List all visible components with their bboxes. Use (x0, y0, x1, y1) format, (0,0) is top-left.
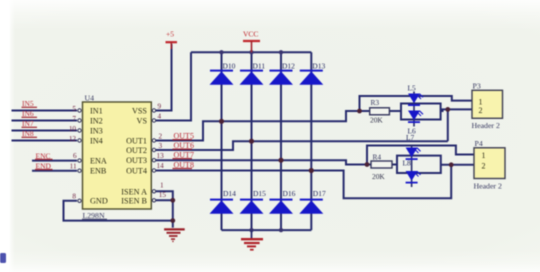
wire channel1 bypass to P3 pin1 (360, 96, 473, 111)
header P4 (474, 139, 506, 191)
svg-text:OUT6: OUT6 (174, 141, 194, 150)
resistor R4 (371, 153, 392, 181)
IC U4 L298N body (82, 94, 151, 221)
svg-text:1: 1 (479, 97, 483, 106)
svg-text:1: 1 (482, 151, 486, 160)
junction VCC rail / D10 column (219, 50, 223, 54)
wire bottom ground rail (222, 229, 312, 231)
IC pin names right (121, 107, 147, 206)
svg-text:IN7: IN7 (22, 119, 34, 128)
junction node D / P4 pin2 (449, 162, 454, 167)
net label IN8 (22, 129, 38, 138)
diode D13 (299, 61, 325, 84)
diode D12 (269, 61, 295, 84)
wire channel1 net B down to OUT6 (447, 109, 449, 141)
wire IN5 to pin5 (12, 110, 78, 112)
left edge cropped net stubs (0, 253, 6, 263)
wire OUT5 net from pin2 (156, 111, 360, 141)
power +5 (166, 29, 178, 49)
wire diode column D12 D16 (280, 52, 282, 230)
svg-text:U4: U4 (85, 94, 95, 103)
wire ISENA pin1 to ground (156, 191, 173, 227)
junction node A / R3 left (357, 109, 362, 114)
svg-text:8: 8 (72, 193, 76, 201)
wire ENC to pin6 (32, 160, 77, 162)
wire END to pin11 (32, 170, 77, 172)
wire GND pin8 loop under IC (64, 201, 173, 221)
svg-text:1: 1 (160, 181, 164, 189)
svg-text:ISEN A: ISEN A (121, 187, 147, 196)
svg-text:15: 15 (159, 191, 167, 199)
LED L8 (403, 158, 421, 183)
svg-text:D14: D14 (223, 189, 236, 198)
wire diode column D11 D15 (251, 52, 253, 230)
junction OUT6 / D11 column (249, 139, 254, 144)
wire IN8 to pin12 (12, 140, 78, 142)
diode D11 (240, 61, 266, 84)
svg-text:D10: D10 (223, 61, 236, 70)
junction OUT7 / D12 column (278, 158, 283, 163)
ground below diode rail (241, 230, 263, 250)
svg-text:R4: R4 (373, 153, 382, 162)
svg-text:GND: GND (90, 197, 108, 206)
svg-text:9: 9 (158, 103, 162, 111)
svg-text:12: 12 (69, 135, 77, 143)
wire LED column channel2 (411, 146, 413, 187)
wire channel2 loop rectangle (397, 156, 441, 173)
net label ENC (35, 151, 53, 160)
svg-text:Header 2: Header 2 (474, 182, 502, 191)
svg-text:20K: 20K (372, 172, 385, 181)
wire IN6 to pin7 (12, 120, 78, 122)
net label OUT8 (173, 160, 194, 169)
header P3 (472, 82, 503, 130)
junction VCC rail / D11 column (249, 50, 253, 54)
svg-text:D15: D15 (253, 189, 266, 198)
svg-text:2: 2 (159, 133, 163, 141)
resistor R3 (370, 98, 390, 125)
wire diode column D13 D17 (310, 52, 312, 230)
junction OUT5 / D10 column (219, 119, 224, 124)
power VCC (243, 29, 260, 52)
wire OUT6 net from pin3 (156, 141, 448, 150)
svg-text:P3: P3 (473, 82, 481, 91)
wire channel1 to P3 pin2 (441, 109, 472, 111)
svg-text:P4: P4 (475, 139, 483, 148)
svg-text:L8: L8 (403, 158, 412, 167)
diode D15 (240, 189, 267, 214)
wire diode column D10 D14 (221, 52, 223, 230)
svg-text:+5: +5 (166, 29, 174, 38)
svg-text:L5: L5 (408, 84, 417, 93)
wire channel2 bypass to P4 pin1 (367, 146, 474, 165)
svg-text:R3: R3 (371, 98, 380, 107)
svg-text:IN4: IN4 (90, 137, 103, 146)
junction OUT8 / D13 column (309, 168, 314, 173)
wire OUT7 net from pin13 (156, 160, 367, 164)
svg-text:2: 2 (479, 106, 483, 115)
LED L7 (406, 133, 421, 160)
svg-text:OUT4: OUT4 (126, 167, 147, 176)
net label OUT6 (173, 141, 194, 150)
wire R4 leads (367, 164, 397, 166)
wire R3 leads (360, 110, 402, 112)
wire VCC top rail (191, 51, 311, 53)
wire OUT8 net from pin14 (156, 165, 451, 199)
junction ground rail / D16 column (279, 228, 283, 232)
IC pin numbers left (69, 105, 77, 201)
svg-text:OUT3: OUT3 (126, 156, 147, 165)
svg-text:D16: D16 (283, 189, 296, 198)
junction node B / P3 pin2 (445, 107, 450, 112)
wire channel1 loop rectangle (401, 104, 441, 120)
svg-text:L298N: L298N (83, 211, 105, 220)
net label OUT5 (173, 131, 194, 140)
svg-text:VCC: VCC (243, 29, 258, 38)
svg-text:4: 4 (158, 113, 162, 121)
svg-text:D11: D11 (253, 61, 266, 70)
svg-text:7: 7 (72, 115, 76, 123)
svg-text:IN2: IN2 (90, 117, 103, 126)
wire IN7 to pin10 (12, 130, 78, 132)
IC pin numbers right (157, 103, 167, 200)
svg-text:10: 10 (69, 125, 77, 133)
svg-text:IN1: IN1 (90, 107, 103, 116)
diode D17 (299, 189, 326, 214)
svg-text:13: 13 (157, 152, 165, 160)
svg-text:OUT5: OUT5 (174, 131, 194, 140)
svg-text:14: 14 (157, 162, 165, 170)
wire channel2 to P4 pin2 (441, 164, 474, 166)
wire LED column channel1 (413, 92, 415, 127)
junction node C / R4 left (365, 162, 370, 167)
ground below ISEN pins (164, 229, 185, 241)
net label IN6 (22, 109, 38, 118)
net label OUT7 (173, 150, 194, 159)
IC pin end circles left (78, 109, 81, 203)
svg-text:D13: D13 (312, 61, 325, 70)
svg-text:L7: L7 (406, 133, 415, 142)
svg-text:IN3: IN3 (90, 127, 103, 136)
junction VCC rail / D12 column (279, 50, 283, 54)
LED L5 (408, 84, 424, 107)
svg-text:2: 2 (482, 162, 486, 171)
svg-text:IN5: IN5 (22, 99, 34, 108)
net label END (35, 161, 53, 170)
svg-text:D12: D12 (282, 61, 295, 70)
svg-text:Header 2: Header 2 (472, 121, 500, 130)
wire VS pin4 riser (156, 52, 191, 120)
junction ground rail / D15 column (249, 228, 253, 232)
LED L6 (408, 111, 424, 136)
svg-text:VSS: VSS (132, 107, 147, 116)
net label IN5 (22, 99, 38, 108)
junction ISENB / ground vertical (170, 198, 175, 203)
svg-text:5: 5 (72, 105, 76, 113)
diode D14 (210, 189, 237, 214)
svg-text:VS: VS (137, 117, 148, 126)
svg-text:11: 11 (70, 162, 77, 170)
diode D10 (210, 61, 236, 84)
svg-text:OUT7: OUT7 (174, 150, 194, 159)
svg-text:20K: 20K (370, 116, 383, 125)
IC pin end circles right (152, 109, 155, 202)
svg-text:OUT2: OUT2 (126, 146, 147, 155)
svg-text:ISEN B: ISEN B (121, 196, 147, 205)
svg-text:OUT1: OUT1 (126, 137, 147, 146)
svg-text:ENA: ENA (90, 157, 107, 166)
svg-text:IN8: IN8 (22, 129, 34, 138)
svg-text:ENB: ENB (90, 167, 107, 176)
svg-text:D17: D17 (313, 189, 326, 198)
svg-text:IN6: IN6 (22, 109, 34, 118)
diode D16 (269, 189, 296, 214)
svg-text:3: 3 (159, 142, 163, 150)
junction GND pin8 loop / ground vertical (170, 218, 175, 223)
net label IN7 (22, 119, 38, 128)
IC pin names left (90, 107, 108, 206)
wire VSS pin9 to +5 (156, 44, 172, 111)
svg-text:6: 6 (73, 152, 77, 160)
wire ISENB pin15 (156, 199, 173, 201)
